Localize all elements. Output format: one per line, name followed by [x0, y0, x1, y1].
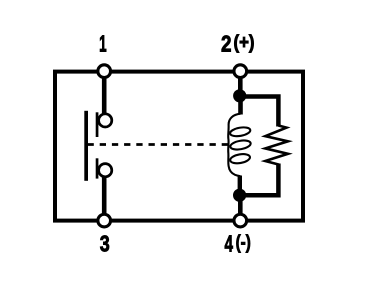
bottom contact stub	[96, 158, 99, 178]
wire pin1 to top contact	[102, 77, 107, 115]
wire top junction to coil top	[238, 96, 243, 115]
junction top	[233, 89, 246, 102]
wire resistor bottom to bottom junction	[240, 164, 279, 196]
switch contact bottom circle	[99, 164, 112, 177]
wire coil bottom to bottom junction	[238, 176, 242, 196]
top contact stub	[96, 112, 99, 137]
wire pin2 to top junction	[238, 77, 243, 96]
svg-text:1: 1	[99, 31, 107, 57]
pin 3 terminal	[98, 214, 111, 227]
pin 1 terminal	[98, 65, 111, 78]
svg-text:3: 3	[100, 231, 110, 257]
coil L1 spine	[228, 114, 240, 177]
resistor R1 zigzag	[265, 126, 288, 165]
pin 4 terminal	[234, 214, 247, 227]
armature bar of switch	[84, 111, 88, 181]
svg-text:4: 4	[225, 231, 234, 257]
junction bottom	[233, 189, 246, 202]
coil L1 turn 3	[230, 153, 251, 165]
mechanical link dashed line	[88, 143, 233, 146]
pin label 4 (-)	[225, 231, 251, 257]
pin 2 terminal	[234, 65, 247, 78]
svg-text:(+): (+)	[234, 33, 255, 54]
wire top junction to resistor top	[240, 97, 279, 127]
relay body outline	[55, 72, 303, 221]
coil L1 turn 2	[230, 139, 252, 151]
switch contact top circle	[99, 114, 112, 127]
svg-text:2: 2	[221, 31, 232, 57]
pin label 2 (+)	[221, 31, 255, 57]
coil L1 turn 1	[229, 126, 251, 138]
wire bottom junction to pin4	[238, 195, 243, 215]
svg-text:(-): (-)	[236, 233, 251, 254]
wire top contact to pin3	[102, 177, 107, 216]
